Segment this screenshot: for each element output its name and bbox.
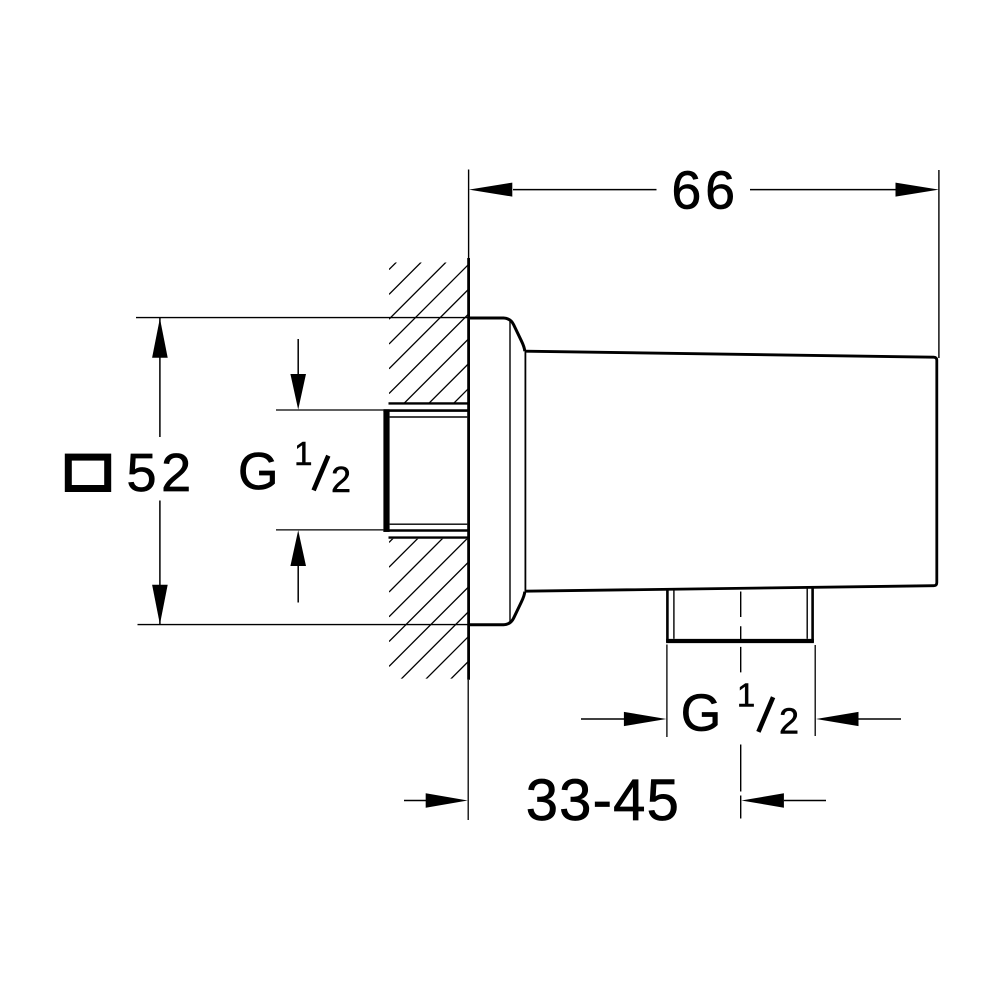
label G 1/2 left: fraction slash [314,456,329,491]
port dimension up arrow shaft [297,566,299,603]
dimension 33-45 right arrowhead [741,793,784,807]
svg-text:1: 1 [294,435,312,472]
svg-text:G: G [681,685,721,743]
inlet port inner bottom thread line [390,523,468,525]
wall hatching [389,190,469,766]
flange front face edge [509,320,511,624]
dimension 66 right extension line [938,170,940,358]
dimension 52 up arrowhead [152,318,168,358]
dimension 52 bottom extension line [138,624,469,626]
square symbol [68,457,107,488]
wall hole upper edge [389,402,469,404]
inlet port top edge [383,409,468,412]
flange top outline [469,318,525,351]
wall extension line up (66 left extension) [468,170,470,259]
port dimension bottom extension line [276,529,383,531]
wall hole lower edge [389,536,469,538]
outlet centerline lower segment [740,745,742,819]
dimension 66 right arrowhead [896,183,939,197]
dimension 66 line right segment [750,189,896,191]
svg-text:52: 52 [127,443,196,503]
inlet port thick left edge [383,409,389,532]
wall line [467,258,470,680]
dimension 33-45 left arrowhead [426,793,468,807]
dimension 52 down arrowhead [152,585,168,625]
outlet dimension right shaft [859,718,902,720]
outlet dimension left shaft [581,718,625,720]
outlet left outer edge [666,588,669,642]
dimension 33-45 left shaft [404,800,427,802]
svg-text:2: 2 [779,701,799,742]
dimension 66 line left segment [513,189,657,191]
outlet right inner thread line [806,588,808,639]
inlet port bottom edge [383,529,468,532]
outlet dimension left arrowhead [624,712,667,726]
outlet dimension right arrowhead [816,712,859,726]
dimension 33-45 right shaft [784,800,826,802]
port dimension down arrowhead [290,374,306,410]
body left edge [524,352,526,592]
wall extension line down (33-45 left extension) [467,680,469,820]
outlet left inner thread line [673,589,675,639]
body outline [525,351,937,591]
outlet dimension right extension line [814,645,816,736]
dimension 52 top extension line [136,317,468,319]
outlet centerline upper segment [740,592,742,675]
svg-text:66: 66 [672,162,740,221]
dimension 52 line upper segment [159,318,161,437]
dimension 66 left arrowhead [469,183,512,197]
svg-text:1: 1 [737,676,755,713]
outlet right outer edge [811,587,814,642]
outlet dimension left extension line [666,645,668,738]
svg-text:2: 2 [331,459,351,500]
label G 1/2 bottom: fraction slash [758,697,773,732]
outlet bottom edge [666,639,814,643]
flange bottom outline [469,592,525,625]
inlet port inner top thread line [390,416,468,418]
port dimension down arrow shaft [297,339,299,376]
dimension 52 line lower segment [159,501,161,625]
port dimension up arrowhead [290,530,306,566]
svg-text:33-45: 33-45 [526,768,680,833]
svg-text:G: G [238,443,278,501]
port dimension top extension line [276,409,383,411]
